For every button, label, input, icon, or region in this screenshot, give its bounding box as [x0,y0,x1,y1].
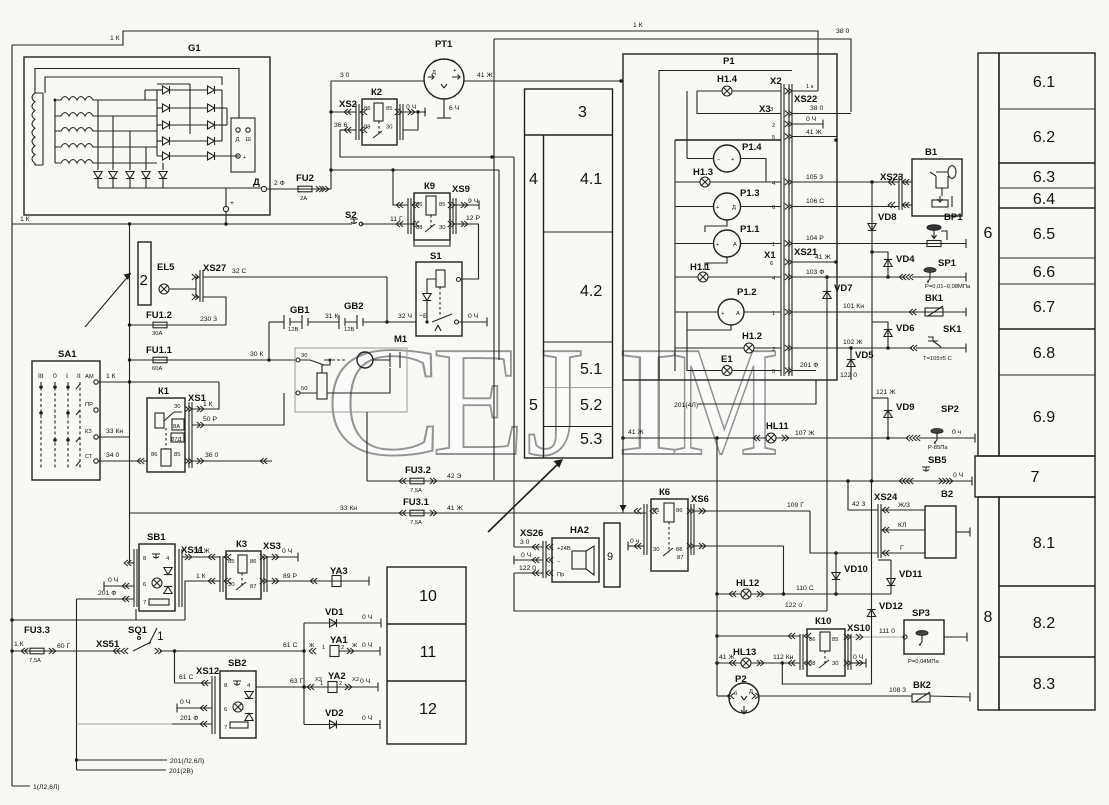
svg-text:6: 6 [224,707,227,713]
svg-text:1 к: 1 к [806,84,814,90]
svg-text:Ш: Ш [246,137,251,143]
svg-text:0 Ч: 0 Ч [180,699,190,706]
svg-text:VD6: VD6 [896,323,914,334]
svg-text:8А: 8А [173,424,180,430]
svg-text:32 С: 32 С [232,268,246,275]
svg-text:Р1.3: Р1.3 [740,188,760,199]
svg-text:63 Г: 63 Г [290,678,303,685]
svg-text:4.1: 4.1 [580,171,602,188]
svg-text:61 С: 61 С [179,674,193,681]
svg-text:103 Ф: 103 Ф [806,269,824,276]
svg-text:5.1: 5.1 [580,361,602,378]
svg-text:110 С: 110 С [796,585,814,592]
svg-text:105 3: 105 3 [806,174,823,181]
svg-text:Р1.2: Р1.2 [737,287,757,298]
svg-text:3: 3 [770,107,773,113]
svg-text:8: 8 [224,683,227,689]
svg-text:2: 2 [140,272,148,289]
svg-text:5: 5 [772,369,775,375]
svg-text:FU2: FU2 [296,173,314,184]
svg-text:3: 3 [578,104,587,121]
svg-text:4: 4 [529,171,538,188]
svg-text:8.1: 8.1 [1033,535,1055,552]
svg-text:VD12: VD12 [879,601,903,612]
svg-text:VD8: VD8 [878,212,896,223]
svg-text:III: III [38,373,44,380]
svg-text:6: 6 [984,225,993,242]
svg-text:+24В: +24В [557,546,571,552]
svg-text:38 0: 38 0 [836,28,849,35]
svg-text:0 Ч: 0 Ч [806,116,816,123]
svg-text:Ж: Ж [309,643,315,649]
svg-text:C: C [325,315,442,489]
svg-text:СТ: СТ [85,454,93,460]
svg-text:А: А [733,242,737,248]
svg-text:41 Ж: 41 Ж [815,254,831,261]
svg-text:Н1.1: Н1.1 [690,262,711,273]
svg-text:Н1.4: Н1.4 [717,74,738,85]
svg-text:2А: 2А [300,196,307,202]
svg-text:FU3.1: FU3.1 [403,497,430,508]
svg-text:122 0: 122 0 [519,565,536,572]
svg-text:SB2: SB2 [228,658,246,669]
svg-text:6.6: 6.6 [1033,264,1055,281]
svg-text:32 Ч: 32 Ч [398,313,412,320]
svg-text:7,5А: 7,5А [29,658,41,664]
svg-text:X2: X2 [770,76,782,87]
svg-text:36 0: 36 0 [205,452,218,459]
svg-text:S1: S1 [430,251,442,262]
svg-text:5: 5 [529,397,538,414]
svg-text:Пр: Пр [557,572,564,578]
svg-text:А: А [736,311,740,317]
svg-text:3 0: 3 0 [520,539,530,546]
svg-text:6.5: 6.5 [1033,226,1055,243]
svg-text:12В: 12В [288,327,298,333]
svg-text:8: 8 [143,556,146,562]
svg-text:0 ч: 0 ч [630,538,640,545]
svg-text:Д: Д [732,205,736,211]
svg-text:31 К: 31 К [325,313,338,320]
svg-text:GB1: GB1 [290,305,310,316]
svg-text:Р1.4: Р1.4 [742,142,762,153]
svg-text:7: 7 [224,725,227,731]
svg-text:12: 12 [419,701,437,718]
svg-text:1(Л2,6Л): 1(Л2,6Л) [33,784,60,791]
svg-text:−Б: −Б [419,313,428,320]
svg-text:86: 86 [676,508,682,514]
svg-text:XS22: XS22 [794,94,817,105]
svg-text:К3: К3 [236,539,247,550]
svg-text:VD7: VD7 [834,283,852,294]
svg-text:109 Г: 109 Г [787,502,804,509]
svg-text:К10: К10 [815,616,831,627]
svg-text:VD10: VD10 [844,564,868,575]
svg-text:104 Р: 104 Р [806,235,824,242]
svg-text:88: 88 [676,547,682,553]
svg-text:85: 85 [174,452,180,458]
svg-text:SK1: SK1 [943,324,962,335]
svg-text:FU1.1: FU1.1 [146,345,173,356]
svg-text:8.3: 8.3 [1033,676,1055,693]
svg-text:30 К: 30 К [250,351,263,358]
svg-text:2: 2 [341,645,344,651]
svg-text:41 Ж: 41 Ж [719,654,735,661]
svg-text:30: 30 [228,582,234,588]
svg-text:XS27: XS27 [203,263,226,274]
svg-text:II: II [77,373,81,380]
svg-text:87: 87 [677,555,683,561]
svg-text:XS26: XS26 [520,528,543,539]
svg-text:6.2: 6.2 [1033,129,1055,146]
svg-text:SA1: SA1 [58,349,77,360]
svg-text:8.2: 8.2 [1033,615,1055,632]
svg-text:41 Ж: 41 Ж [477,72,493,79]
svg-text:108 3: 108 3 [889,687,906,694]
svg-text:FU3.2: FU3.2 [405,465,431,476]
svg-text:X2: X2 [352,677,359,683]
svg-text:7,5А: 7,5А [410,488,422,494]
svg-text:XS24: XS24 [874,492,898,503]
svg-text:Д: Д [236,137,240,143]
svg-text:0 Ч: 0 Ч [468,313,478,320]
svg-text:X1: X1 [764,250,776,261]
svg-text:В1: В1 [925,147,938,158]
svg-text:HL12: HL12 [736,578,759,589]
svg-text:1 К: 1 К [196,573,206,580]
svg-text:0 Ч: 0 Ч [360,678,370,685]
svg-text:86: 86 [250,559,256,565]
svg-text:85: 85 [439,202,445,208]
svg-text:SP2: SP2 [941,404,959,415]
svg-text:30А: 30А [152,331,162,337]
svg-text:К2: К2 [371,87,382,98]
svg-text:34 0: 34 0 [106,452,119,459]
svg-text:XS10: XS10 [847,623,870,634]
svg-text:0 Ч: 0 Ч [362,642,372,649]
svg-text:201(Л2,6Л): 201(Л2,6Л) [170,758,204,765]
svg-text:0 Ч: 0 Ч [362,614,372,621]
svg-text:86: 86 [416,202,422,208]
svg-text:YA2: YA2 [328,671,346,682]
svg-text:EL5: EL5 [157,262,175,273]
svg-text:К1: К1 [158,386,170,397]
svg-text:HL11: HL11 [766,421,789,432]
svg-text:9: 9 [607,551,613,563]
svg-text:5.2: 5.2 [580,397,602,414]
svg-text:41 Ж: 41 Ж [447,505,463,512]
svg-text:6 Ч: 6 Ч [449,105,459,112]
svg-text:122 0: 122 0 [840,372,857,379]
svg-text:Д: Д [253,177,260,188]
svg-text:122 о: 122 о [785,602,802,609]
svg-text:88: 88 [809,661,815,667]
svg-text:Д: Д [432,70,436,76]
svg-text:30: 30 [832,661,838,667]
svg-text:85: 85 [386,106,392,112]
svg-text:201 Ф: 201 Ф [98,590,116,597]
svg-text:+: + [230,200,234,207]
svg-text:3 0: 3 0 [340,72,350,79]
svg-text:230 3: 230 3 [200,316,217,323]
svg-text:201(4Л): 201(4Л) [674,402,698,409]
svg-text:5.3: 5.3 [580,431,602,448]
svg-text:VD5: VD5 [855,350,874,361]
svg-text:30: 30 [386,125,392,131]
svg-text:36 6: 36 6 [334,122,347,129]
svg-text:12 Р: 12 Р [466,215,480,222]
svg-text:SQ1: SQ1 [128,625,148,636]
svg-text:ВК2: ВК2 [913,680,931,691]
svg-text:НА2: НА2 [570,525,589,536]
svg-text:VD11: VD11 [899,569,923,580]
svg-text:ВК1: ВК1 [925,293,944,304]
svg-text:36 Ж: 36 Ж [194,548,210,555]
svg-text:88: 88 [416,225,422,231]
svg-text:101 Кн: 101 Кн [843,303,864,310]
svg-text:85: 85 [832,637,838,643]
svg-text:Е1: Е1 [721,354,733,365]
svg-text:0: 0 [53,373,57,380]
svg-text:ВР1: ВР1 [944,212,963,223]
svg-text:121 Ж: 121 Ж [876,389,896,396]
svg-text:60 Г: 60 Г [57,643,70,650]
svg-text:Т=105±5 С: Т=105±5 С [923,356,952,362]
svg-text:6: 6 [770,261,773,267]
svg-text:FU1.2: FU1.2 [146,310,172,321]
svg-text:XS6: XS6 [691,494,709,505]
svg-text:42 Э: 42 Э [447,473,461,480]
svg-text:1 К: 1 К [110,35,120,42]
svg-text:107 Ж: 107 Ж [795,430,815,437]
svg-text:XS2: XS2 [339,99,357,110]
svg-text:К9: К9 [424,181,435,192]
svg-text:7: 7 [1031,469,1040,486]
svg-text:FU3.3: FU3.3 [24,625,50,636]
svg-text:11 Г: 11 Г [390,216,403,223]
svg-text:2: 2 [772,123,775,129]
svg-text:0 ч: 0 ч [952,429,962,436]
svg-text:0 Ч: 0 Ч [521,552,531,559]
svg-text:12В: 12В [344,327,354,333]
svg-text:0 Ч: 0 Ч [362,715,372,722]
svg-text:50: 50 [301,386,307,392]
svg-text:VD1: VD1 [325,607,344,618]
svg-text:106 С: 106 С [806,198,824,205]
svg-text:КЛ: КЛ [898,522,906,529]
svg-text:4.2: 4.2 [580,283,602,300]
svg-text:87: 87 [250,584,256,590]
svg-text:41 Ж: 41 Ж [628,429,644,436]
svg-text:Р=0,04МПа: Р=0,04МПа [908,659,940,665]
svg-text:9 Ч: 9 Ч [468,198,478,205]
svg-text:GB2: GB2 [344,301,364,312]
svg-text:G1: G1 [188,43,201,54]
svg-text:В2: В2 [941,489,953,500]
svg-text:6.4: 6.4 [1033,191,1055,208]
svg-text:VD4: VD4 [896,254,915,265]
svg-text:YA1: YA1 [330,635,348,646]
svg-text:8: 8 [984,609,993,626]
svg-text:РТ1: РТ1 [435,39,453,50]
svg-text:0 Ч: 0 Ч [108,577,118,584]
svg-text:86: 86 [151,452,157,458]
svg-text:50 Р: 50 Р [203,416,217,423]
svg-text:6.1: 6.1 [1033,74,1055,91]
svg-text:102 Ж: 102 Ж [843,339,863,346]
svg-text:38 0: 38 0 [810,105,823,112]
svg-text:E: E [432,316,525,489]
svg-text:42 3: 42 3 [852,501,865,508]
svg-text:SP3: SP3 [912,608,930,619]
svg-text:10: 10 [419,588,437,605]
svg-text:VD9: VD9 [896,402,914,413]
svg-text:SP1: SP1 [938,258,957,269]
svg-text:5: 5 [772,135,775,141]
svg-text:7: 7 [143,600,146,606]
svg-text:ПР: ПР [85,402,93,408]
svg-text:201 Ф: 201 Ф [180,715,198,722]
svg-text:SB5: SB5 [928,455,947,466]
svg-text:6: 6 [143,582,146,588]
svg-text:1 К: 1 К [106,373,116,380]
svg-text:Р-85Па: Р-85Па [928,445,948,451]
svg-text:Р1.1: Р1.1 [740,224,760,235]
svg-text:Г: Г [900,545,904,552]
svg-text:201 Ф: 201 Ф [800,362,818,369]
svg-text:111 0: 111 0 [879,628,895,635]
svg-text:VD2: VD2 [325,708,343,719]
svg-text:Р=0,01–0,08МПа: Р=0,01–0,08МПа [925,284,971,290]
svg-text:7,5А: 7,5А [410,520,422,526]
svg-text:Р1: Р1 [723,56,735,67]
svg-text:11: 11 [420,644,437,661]
svg-text:0 Ч: 0 Ч [853,654,863,661]
svg-text:XS9: XS9 [452,184,470,195]
svg-text:6.8: 6.8 [1033,345,1055,362]
svg-text:2: 2 [772,347,775,353]
svg-text:33 Кн: 33 Кн [340,505,357,512]
svg-text:6.3: 6.3 [1033,169,1055,186]
svg-text:1 К: 1 К [203,401,213,408]
svg-text:1: 1 [322,645,325,651]
svg-text:XS12: XS12 [196,666,219,677]
svg-text:Н1.3: Н1.3 [693,167,713,178]
svg-text:33 Кн: 33 Кн [106,428,123,435]
svg-text:АМ: АМ [85,374,94,380]
svg-text:1 К: 1 К [14,641,24,648]
svg-text:112 Кн: 112 Кн [773,654,794,661]
svg-text:30: 30 [301,353,307,359]
svg-text:30: 30 [174,404,180,410]
svg-text:1 К: 1 К [20,216,30,223]
svg-text:2: 2 [339,681,342,687]
svg-text:I: I [66,373,68,380]
svg-text:2 Ф: 2 Ф [274,180,285,187]
svg-text:0 Ч: 0 Ч [406,104,416,111]
svg-text:6.7: 6.7 [1033,299,1055,316]
svg-text:1: 1 [772,242,775,248]
svg-text:К6: К6 [659,487,670,498]
svg-text:89 Р: 89 Р [283,573,297,580]
svg-text:Ж/3: Ж/3 [898,502,910,509]
svg-text:1 К: 1 К [633,22,643,29]
svg-text:6: 6 [772,205,775,211]
svg-text:201(2В): 201(2В) [169,768,193,775]
svg-text:Н1.2: Н1.2 [742,331,762,342]
svg-text:60А: 60А [152,366,162,372]
svg-text:М1: М1 [394,334,408,345]
svg-text:X2: X2 [315,677,322,683]
svg-text:1: 1 [772,311,775,317]
svg-text:61 С: 61 С [283,642,297,649]
svg-text:6.9: 6.9 [1033,409,1055,426]
svg-text:30: 30 [653,547,659,553]
svg-text:Д: Д [749,689,753,695]
svg-text:41 Ж: 41 Ж [806,129,822,136]
svg-text:30: 30 [439,225,445,231]
svg-text:Ж: Ж [352,643,358,649]
svg-text:HL13: HL13 [733,647,756,658]
svg-text:SB1: SB1 [147,532,166,543]
svg-text:0 Ч: 0 Ч [953,472,963,479]
svg-text:1: 1 [157,629,164,643]
svg-text:XS3: XS3 [263,541,281,552]
svg-text:0 Ч: 0 Ч [282,548,292,555]
svg-text:КЗ: КЗ [85,429,92,435]
svg-text:87Д: 87Д [171,437,181,443]
